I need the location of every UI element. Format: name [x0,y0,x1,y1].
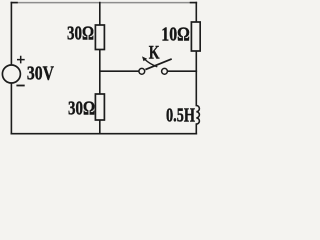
switch K: motion arrow arc [145,59,158,67]
inductor L 0.5H (coil on right wire) [196,106,199,125]
switch K: arrowhead [142,56,147,61]
switch K: left contact [139,68,145,74]
wire left upper (source + to top wire) [10,3,12,65]
wire top left corner stub [11,2,17,4]
plus terminal mark [17,56,25,64]
svg-text:30V: 30V [27,62,54,84]
resistor R2 10ohm (top right box) [191,22,200,51]
svg-text:30Ω: 30Ω [68,98,95,120]
wire middle branch lower (R4 to bottom wire) [99,120,101,134]
svg-text:30Ω: 30Ω [67,23,94,45]
wire top right corner stub [191,2,197,4]
wire middle branch upper (top wire to R1) [99,3,101,25]
wire bottom [11,133,196,135]
svg-text:K: K [149,42,160,63]
svg-text:10Ω: 10Ω [161,24,190,46]
resistor R4 30ohm (bottom middle box) [95,94,104,120]
wire right upper (top wire to R2) [195,3,197,22]
wire right lower (inductor L to bottom wire) [195,124,197,134]
wire left lower (source - to bottom wire) [10,83,12,134]
resistor R1 30ohm (top middle box) [95,25,104,50]
wire middle horizontal (node B to switch K) [100,70,139,72]
wire middle branch center (R1 to R4, node B) [99,50,101,95]
wire right middle (R2 to switch node and inductor) [195,51,197,106]
svg-text:0.5H: 0.5H [166,105,195,127]
switch K: right contact [162,68,168,74]
switch K: blade [145,59,171,70]
voltage source 30V [2,65,20,83]
wire switch K to right wire [167,70,196,72]
minus terminal mark [16,85,24,87]
wire top (node between source +, R1 branch and R2 branch) [11,2,196,4]
